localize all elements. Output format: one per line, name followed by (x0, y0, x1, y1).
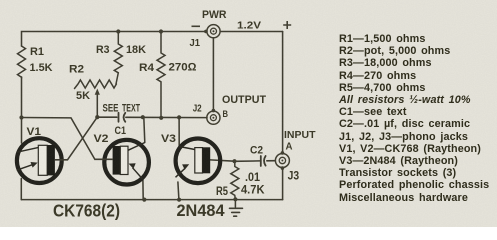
transistor V2 (95, 140, 149, 185)
capacitor C2 (234, 160, 275, 163)
wire right rail upper (282, 32, 284, 154)
wire right rail lower (282, 168, 284, 200)
wire V2 collector (144, 117, 145, 143)
resistor R5 (231, 161, 239, 199)
R2 wiper arrowhead (95, 89, 100, 95)
paper grain (0, 0, 1, 1)
resistor R3 (114, 32, 122, 85)
transistor V3 (176, 139, 221, 184)
capacitor C1 (119, 113, 126, 122)
ground symbol (230, 208, 243, 216)
wire V2 emitter to ground rail (142, 180, 144, 200)
wire top rail (22, 32, 207, 47)
resistor R1 (18, 46, 26, 77)
node junction V2 base wire (22, 118, 95, 160)
wire ground stem (234, 199, 236, 207)
wire J1 to J2 (212, 38, 214, 111)
wire bottom rail (22, 199, 283, 201)
phono jack J2 (207, 111, 220, 124)
wire V3 emitter to ground rail (178, 182, 179, 200)
resistor R4 (157, 32, 165, 118)
battery plus sign (283, 21, 291, 29)
wire left rail upper (21, 77, 23, 143)
phono jack J3 (275, 154, 289, 168)
wire middle rail with C1 (97, 116, 207, 118)
transistor V1 (17, 117, 98, 183)
wire J1 to battery plus corner (221, 31, 283, 33)
wire V3 collector (178, 117, 180, 146)
battery minus sign (192, 25, 201, 27)
R2 wiper arm (96, 92, 98, 117)
wire left rail lower (20, 179, 22, 200)
phono jack J1 (207, 25, 220, 38)
parts list (339, 33, 489, 204)
wire V3 base lead (210, 160, 234, 161)
resistor R2 potentiometer (75, 80, 117, 89)
